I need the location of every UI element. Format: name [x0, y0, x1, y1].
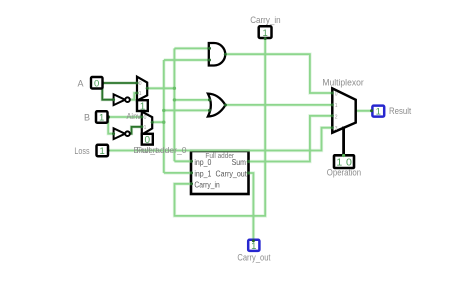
node mux Binvert output	[151, 121, 154, 124]
svg-text:0: 0	[139, 81, 142, 87]
node AND output	[224, 53, 227, 56]
svg-text:Result: Result	[389, 106, 412, 116]
input Loss (value 1)	[97, 145, 109, 157]
node Result pin	[370, 109, 373, 112]
svg-text:3: 3	[335, 126, 338, 132]
node Carry_in pin	[264, 37, 267, 40]
svg-text:0: 0	[335, 92, 338, 98]
input A (value 0)	[91, 77, 103, 89]
node Multiplexor pin3	[331, 126, 334, 129]
node Multiplexor pin0	[331, 92, 334, 95]
mux Ainvert (2:1 multiplexer)	[137, 77, 147, 101]
Multiplexor (4:1 multiplexer)	[332, 88, 355, 132]
mux Binvert (2:1 multiplexer)	[142, 112, 152, 135]
full adder subcircuit box	[191, 151, 249, 194]
input Carry_in (value 1)	[259, 26, 272, 39]
node mux Ainvert output	[146, 87, 149, 90]
node OR input top	[208, 98, 211, 101]
node mux Ainvert pin1	[136, 92, 139, 95]
svg-text:0: 0	[145, 135, 151, 146]
svg-text:1: 1	[140, 101, 146, 112]
svg-text:Operation: Operation	[327, 167, 361, 177]
svg-text:Carry_out: Carry_out	[237, 252, 271, 262]
node Loss pin	[106, 149, 109, 152]
AND gate	[209, 43, 225, 66]
output Result (value 1)	[372, 106, 384, 118]
svg-text:2: 2	[335, 114, 338, 120]
node junction A branch	[101, 81, 105, 85]
node junction B branch	[106, 115, 110, 119]
svg-text:Carry_in: Carry_in	[250, 15, 280, 25]
node adder inp_0	[190, 160, 193, 163]
node mux Ainvert pin0	[136, 82, 139, 85]
svg-text:1: 1	[100, 146, 105, 157]
input Operation (2-bit, value 1 0)	[334, 155, 354, 168]
node adder Sum	[247, 160, 250, 163]
svg-text:1: 1	[144, 125, 147, 131]
svg-text:Full_adder_0: Full_adder_0	[137, 145, 187, 155]
node adder Carry_out	[247, 172, 250, 175]
node NOT2 input	[112, 132, 115, 135]
constant 0 (select of mux Binvert)	[142, 134, 153, 146]
svg-text:inp_0: inp_0	[194, 158, 211, 167]
wire Operation bus (2-bit) to Multiplexor select, black	[342, 127, 345, 156]
svg-text:1: 1	[376, 107, 381, 118]
node mux Binvert pin1	[140, 125, 143, 128]
svg-text:Sum: Sum	[232, 158, 246, 167]
node mux Binvert pin0	[140, 116, 143, 119]
svg-text:1: 1	[335, 103, 338, 109]
node Multiplexor pin1	[331, 103, 334, 106]
svg-text:Carry_out: Carry_out	[216, 169, 248, 178]
node junction mux Ainvert out joins V1	[173, 87, 176, 90]
node Carry_out pin	[252, 239, 255, 242]
node junction V1 to OR input	[173, 98, 176, 101]
svg-text:Loss: Loss	[74, 146, 90, 156]
svg-text:A: A	[77, 78, 83, 88]
svg-text:inp_1: inp_1	[194, 169, 211, 178]
node junction mux Binvert out joins V2	[162, 121, 165, 124]
pin dots (dark green connection nodes)	[112, 37, 373, 242]
node AND input bottom	[208, 59, 211, 62]
node junction V2 to OR input	[162, 109, 165, 112]
NOT gate NOT1 (A inverter)	[114, 94, 130, 105]
node NOT1 input	[112, 98, 115, 101]
NOT gate NOT2 (B inverter)	[114, 128, 130, 139]
svg-text:0: 0	[94, 78, 99, 89]
node AND input top	[208, 47, 211, 50]
svg-text:1: 1	[99, 113, 104, 124]
svg-text:B: B	[84, 113, 90, 123]
node OR output	[224, 104, 227, 107]
constant 1 (select of mux Ainvert)	[137, 100, 148, 112]
input B (value 1)	[96, 111, 108, 123]
node Operation pin	[342, 154, 345, 157]
svg-text:Carry_in: Carry_in	[194, 180, 220, 189]
node adder Carry_in	[190, 182, 193, 185]
svg-text:1: 1	[251, 241, 256, 252]
output Carry_out (value 1)	[248, 240, 259, 252]
OR gate	[208, 94, 226, 117]
svg-text:1: 1	[139, 91, 142, 97]
svg-text:0: 0	[144, 115, 147, 121]
node OR input bottom	[208, 109, 211, 112]
node Multiplexor pin2	[331, 114, 334, 117]
node adder inp_1	[190, 171, 193, 174]
wires: soft halo layer then core strokes	[108, 38, 373, 240]
svg-text:Multiplexor: Multiplexor	[322, 78, 363, 88]
